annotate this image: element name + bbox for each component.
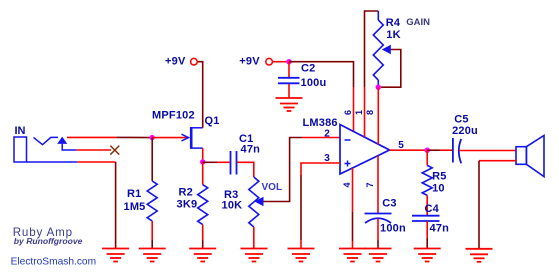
+9V supply (LM386 pin 6): [239, 55, 272, 67]
svg-text:ElectroSmash.com: ElectroSmash.com: [11, 256, 97, 267]
svg-text:47n: 47n: [241, 144, 261, 156]
svg-text:7: 7: [365, 182, 375, 187]
svg-text:100u: 100u: [301, 77, 327, 89]
wire R4 wiper loop: [381, 50, 401, 88]
capacitor C3 100n: [365, 198, 406, 235]
input jack J1: [14, 125, 76, 162]
svg-text:by Runoffgroove: by Runoffgroove: [14, 236, 83, 246]
wire gate segment: [152, 137, 189, 139]
svg-text:+9V: +9V: [239, 55, 260, 67]
svg-text:5: 5: [398, 140, 404, 151]
node B junction dot (source/R2/C1): [200, 159, 205, 164]
svg-text:100n: 100n: [380, 223, 406, 235]
svg-text:10: 10: [432, 183, 445, 195]
wire C1 to VOL pot: [237, 162, 253, 177]
ground (VOL): [241, 249, 268, 262]
transistor Q1 MPF102 JFET: [152, 110, 220, 149]
wire jack ring (red, unconnected): [76, 149, 111, 151]
svg-text:10K: 10K: [222, 200, 243, 212]
svg-text:8: 8: [365, 110, 375, 115]
resistor R1 1M5: [124, 138, 158, 249]
svg-text:47n: 47n: [430, 223, 450, 235]
svg-text:C2: C2: [301, 63, 315, 75]
capacitor C5 220u: [452, 114, 478, 164]
svg-text:1: 1: [354, 110, 364, 115]
potentiometer R3 10K VOL: [222, 177, 283, 249]
ground (R1): [139, 249, 166, 262]
wire pin 4 to ground: [352, 168, 354, 212]
ground (C4): [414, 249, 441, 262]
svg-text:LM386: LM386: [303, 117, 338, 129]
+9V supply (Q1 drain): [165, 55, 197, 67]
node C junction dot (C2 tap): [286, 59, 291, 64]
node E junction dot (output/R5/C5): [425, 148, 430, 153]
ground (speaker): [466, 249, 493, 262]
capacitor C4 47n: [412, 203, 449, 235]
resistor R2 3K9: [177, 162, 208, 249]
wire node C to pin 6: [289, 62, 354, 87]
svg-text:MPF102: MPF102: [152, 110, 195, 122]
wire source to node B: [202, 148, 204, 162]
svg-text:Q1: Q1: [205, 115, 220, 127]
wire jack tip to gate (red then maroon): [67, 136, 116, 138]
svg-text:IN: IN: [15, 125, 26, 137]
svg-text:4: 4: [342, 182, 352, 187]
node D junction dot (R4 bottom/pin 8): [376, 85, 381, 90]
svg-text:GAIN: GAIN: [406, 17, 430, 28]
svg-text:2: 2: [324, 129, 330, 140]
wire jack sleeve: [27, 161, 77, 163]
potentiometer R4 1K GAIN: [373, 11, 430, 87]
ground (R2): [189, 249, 216, 262]
ground (jack sleeve): [102, 249, 129, 262]
wire C4 to ground: [426, 221, 428, 238]
ground (pin 4): [339, 249, 366, 262]
wire node E to C5: [427, 149, 440, 151]
wire node B to C1: [203, 161, 217, 163]
svg-text:R5: R5: [432, 171, 446, 183]
ground (C2): [276, 98, 303, 111]
wire C5 to speaker: [459, 150, 516, 152]
speaker LS1: [516, 136, 544, 177]
svg-text:220u: 220u: [452, 125, 478, 137]
svg-text:R1: R1: [127, 188, 141, 200]
svg-text:6: 6: [343, 110, 353, 115]
wire pin 7 to C3: [377, 156, 379, 213]
svg-text:VOL: VOL: [262, 182, 283, 193]
wire pin 1 to R4 top: [364, 87, 366, 137]
no-connect X: [110, 146, 119, 155]
svg-text:C3: C3: [382, 198, 396, 210]
op-amp U1 LM386: [303, 117, 390, 174]
ground (pin 3): [288, 249, 315, 262]
svg-text:C5: C5: [454, 114, 468, 126]
svg-text:3K9: 3K9: [177, 199, 198, 211]
node A junction dot (gate/R1): [150, 135, 155, 140]
wire node D to pin 8: [377, 87, 379, 144]
wire C3 to ground: [377, 219, 379, 241]
svg-text:1K: 1K: [386, 29, 400, 41]
svg-text:+9V: +9V: [165, 55, 186, 67]
resistor R5 10: [422, 150, 446, 215]
capacitor C2 100u: [278, 62, 326, 98]
wire speaker to ground: [479, 160, 516, 162]
ground (C3): [365, 249, 392, 262]
wire pin 3 to ground: [301, 163, 340, 175]
capacitor C1 47n: [231, 133, 261, 175]
wire VOL wiper to pin 2: [264, 138, 303, 202]
wire +9V to node C: [273, 61, 286, 63]
svg-text:C4: C4: [425, 203, 440, 215]
svg-text:R4: R4: [386, 17, 401, 29]
svg-text:1M5: 1M5: [124, 201, 146, 213]
wire +9V to drain: [198, 62, 203, 128]
svg-text:R2: R2: [179, 187, 193, 199]
wire pin 5 output: [390, 149, 426, 151]
